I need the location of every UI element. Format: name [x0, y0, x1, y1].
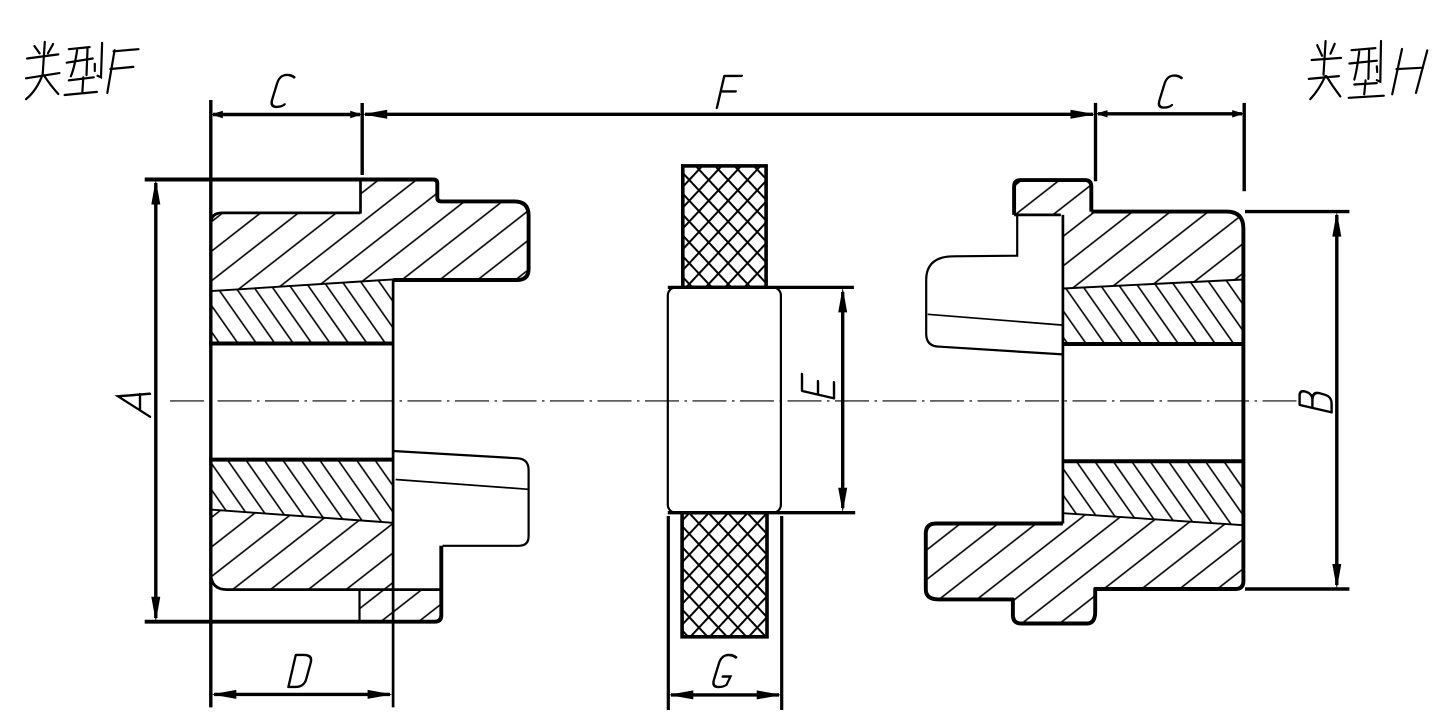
- dimension E extension line top: [668, 286, 854, 289]
- left flange F: hub bottom corner and slot top line: [211, 573, 441, 590]
- label B rotated: [1300, 389, 1332, 413]
- dimension G extension line right: [780, 516, 783, 710]
- right flange H: hub+rim section hatch (top): [1014, 180, 1243, 288]
- dimension C (right) extension line right: [1242, 103, 1245, 191]
- dimension G line with arrows: [671, 693, 779, 696]
- right flange H: rim piece outline (top): [1014, 180, 1091, 215]
- left flange F: bore bottom line: [209, 458, 393, 462]
- right flange H: bore bottom line: [1063, 459, 1245, 463]
- dimension B extension line bottom: [1245, 587, 1349, 590]
- right flange H: upper jaw cone edge line: [928, 314, 1063, 325]
- left flange F: left face edge line: [209, 100, 212, 707]
- right flange H: hub left face line: [1062, 215, 1065, 524]
- label A rotated: [118, 386, 150, 416]
- dimension B line with arrows: [1335, 215, 1338, 585]
- left flange F: bushing taper line (bottom): [211, 510, 393, 523]
- right flange H: jaw slot bottom line (top half): [1014, 214, 1061, 217]
- label E rotated: [802, 374, 834, 398]
- dimension F line with arrows: [365, 113, 1093, 116]
- right flange H: bushing taper line (bottom): [1063, 513, 1244, 525]
- dimension D line with arrows: [214, 693, 390, 696]
- left flange F: hub end face line / D extension: [392, 279, 395, 707]
- left flange F: bore top line: [209, 342, 393, 346]
- dimension C (left) extension line right: [361, 103, 364, 175]
- left flange F: hub+jaw section hatch (top): [211, 180, 529, 292]
- spider elastomer crosshatch (top): [683, 166, 766, 288]
- label C left: [270, 75, 294, 107]
- center sleeve outline: [668, 287, 781, 512]
- left flange F: lower jaw cone edge line: [396, 480, 529, 490]
- dimension B extension line top: [1245, 210, 1349, 213]
- left flange F: taper bushing section hatch (top): [211, 279, 394, 343]
- right flange H: bushing taper line (top): [1063, 280, 1244, 289]
- left flange F: jaw slot rect right edge / C extension root: [359, 179, 362, 214]
- right flange H: upper jaw outline (in view): [926, 215, 1063, 355]
- label G: [712, 655, 736, 687]
- label F: [717, 76, 742, 108]
- text 类型F: [26, 42, 139, 99]
- left flange F: bushing taper line (top): [211, 279, 394, 291]
- dimension A line with arrows: [154, 183, 157, 618]
- left flange F: hub+foot section hatch (bottom): [211, 510, 441, 622]
- right flange H: taper bushing section hatch (bottom): [1063, 461, 1244, 525]
- dimension G extension line left: [667, 516, 670, 710]
- dimension C (left) line with arrows: [213, 113, 360, 116]
- left flange F: taper bushing section hatch (bottom): [211, 460, 393, 523]
- dimension C (right) extension line left: [1094, 103, 1097, 181]
- left flange F: outer rim top outline with jaw step: [145, 180, 529, 281]
- left flange F: lower jaw outline (in view): [393, 451, 528, 546]
- left flange F: foot left edge: [358, 590, 360, 622]
- right flange H: hub top outline and right face: [926, 212, 1244, 624]
- right flange H: taper bushing section hatch (top): [1063, 280, 1244, 345]
- label C right: [1158, 76, 1182, 108]
- right flange H: hub+jaw+foot section hatch (bottom): [926, 513, 1244, 623]
- label D: [288, 655, 312, 687]
- dimension E line with arrows: [841, 292, 844, 508]
- spider elastomer crosshatch (bottom): [682, 513, 767, 637]
- left flange F: jaw slot rect bottom edge (top half): [211, 213, 361, 224]
- text 类型H: [1309, 41, 1428, 99]
- dimension E extension line bottom: [668, 511, 855, 514]
- left flange F: bottom rim outline with foot: [145, 546, 442, 622]
- center axis line: [170, 400, 1300, 402]
- right flange H: bore top line: [1063, 342, 1245, 346]
- dimension C (right) line with arrows: [1098, 112, 1242, 115]
